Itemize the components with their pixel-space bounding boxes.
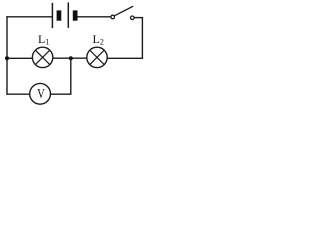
wire: node A vertical down to voltmeter branch (70, 58, 72, 94)
wire: lamp L2 to junction node A (71, 57, 87, 59)
wire: left vertical rail (6, 16, 8, 95)
switch S1 left contact circle (111, 15, 115, 19)
lamp L1 cross stroke 1 (35, 50, 49, 64)
battery B1 cell 1 short thick plate (negative) (57, 10, 62, 20)
junction node A dot (69, 56, 73, 60)
wire: switch to top-right corner (134, 17, 143, 19)
battery B1 cell 2 short thick plate (negative) (73, 10, 78, 20)
lamp L1 circle (32, 47, 52, 67)
voltmeter V1 circle (30, 83, 51, 104)
battery B1 cell 1 long plate (positive) (51, 3, 53, 28)
wire: lamp L1 to left rail (7, 57, 32, 59)
svg-text:V: V (37, 86, 45, 101)
lamp L1 cross stroke 2 (35, 50, 49, 64)
switch S1 right contact circle (131, 16, 135, 20)
wire: right vertical to lamp L2 (107, 57, 143, 59)
wire: battery to switch (78, 16, 112, 18)
wire: bottom-left horizontal to voltmeter (6, 93, 29, 95)
wire: voltmeter to node A branch (51, 93, 72, 95)
svg-text:L2: L2 (93, 32, 104, 47)
switch S1 lever (open) (114, 6, 133, 16)
lamp L2 cross stroke 1 (90, 50, 104, 64)
wire: junction node A to lamp L1 (53, 57, 71, 59)
svg-text:L1: L1 (38, 32, 49, 47)
junction node B dot on left rail (5, 56, 9, 60)
wire: right vertical rail (141, 17, 143, 58)
lamp L2 cross stroke 2 (90, 50, 104, 64)
battery B1 cell 2 long plate (positive) (67, 2, 69, 27)
lamp L2 circle (87, 47, 107, 67)
wire: top-left horizontal from left vertical to battery (6, 16, 52, 18)
